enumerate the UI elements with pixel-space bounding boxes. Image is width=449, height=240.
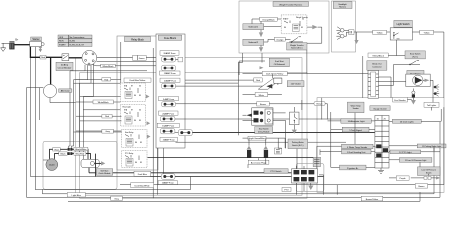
cable connector to breaker (46, 56, 62, 58)
connector red (40, 55, 46, 59)
label 12 pto light (390, 150, 421, 154)
container main harness box (76, 58, 307, 199)
water temp sender box (347, 102, 364, 113)
wire solenoid1 to relay (262, 27, 281, 63)
svg-text:Yellow: Yellow (377, 32, 383, 34)
svg-text:Brown: Brown (418, 185, 425, 188)
svg-text:White: White (259, 94, 265, 97)
wire light switch down to yellow/black (363, 40, 405, 98)
label Black clutch (59, 152, 67, 156)
oil pressure switch symbol (411, 174, 441, 180)
accessory plug 2 (263, 138, 268, 158)
svg-text:86: 86 (134, 95, 136, 97)
svg-text:3 Fuel Sending Unit: 3 Fuel Sending Unit (347, 151, 366, 154)
fuel sender label (393, 97, 408, 102)
low oil pressure switch box (418, 167, 441, 176)
seat switch symbol (408, 60, 420, 65)
svg-text:Fuel Sender: Fuel Sender (394, 99, 406, 102)
starter cable down and to breaker (30, 47, 40, 58)
svg-text:12V Outlet: 12V Outlet (291, 83, 301, 86)
label Red 12v (254, 78, 262, 82)
svg-text:86: 86 (134, 120, 136, 122)
tail light bulb 1 (434, 84, 439, 89)
label 5 tach signal (342, 127, 369, 132)
svg-text:4 Water Temp Sender: 4 Water Temp Sender (347, 146, 367, 149)
svg-text:87A 87: 87A 87 (283, 18, 288, 21)
fuel pump symbol (406, 74, 430, 86)
label Gray (111, 196, 123, 200)
label Orange (264, 37, 291, 42)
12v outlet arrow (266, 84, 272, 89)
fuse block (156, 34, 185, 148)
svg-text:Fuel Shut: Fuel Shut (275, 60, 284, 63)
weight transfer relay (281, 15, 308, 34)
svg-text:15 Parking Brake Light: 15 Parking Brake Light (422, 145, 442, 148)
light switch label (394, 20, 413, 27)
PTO small connector box (313, 157, 320, 166)
svg-text:30: 30 (139, 110, 141, 112)
parking brake switch label (288, 139, 308, 149)
svg-text:START: START (59, 44, 66, 47)
label 4 water temp sender (342, 144, 374, 149)
tail lights label (424, 102, 439, 107)
solenoid 1 (243, 24, 264, 30)
accessory plugs label (248, 160, 269, 164)
starter label (31, 37, 42, 41)
wires ignition down to left bus (70, 64, 94, 159)
weight transfer switch label (287, 43, 307, 50)
PTO assembly container (296, 164, 324, 192)
starter solenoid (30, 41, 45, 51)
svg-text:Solenoid 2: Solenoid 2 (248, 42, 259, 44)
svg-text:B+M1: B+M1 (70, 41, 76, 43)
relay 3 (122, 130, 151, 148)
label Red clutch (53, 148, 61, 152)
svg-text:85: 85 (139, 95, 141, 97)
ground battery (1, 43, 10, 51)
fuel shut off solenoid label (269, 58, 289, 66)
headlight bulb 1 (336, 27, 344, 34)
svg-text:Brown: Brown (317, 103, 324, 106)
container bottom-right harness box (317, 98, 444, 193)
svg-text:11 Low Oil Pressure Light: 11 Low Oil Pressure Light (405, 159, 427, 162)
svg-text:Dark Blue/Yellow: Dark Blue/Yellow (130, 79, 146, 82)
fuse A label (160, 51, 179, 55)
seat switch delay module label (255, 127, 273, 134)
wires ignition to fuse block (97, 58, 157, 62)
12v outlet label (287, 81, 304, 87)
svg-text:Light Blue: Light Blue (72, 194, 82, 197)
cable branch to alternator (50, 57, 52, 84)
svg-text:Head Light: Head Light (123, 106, 132, 109)
svg-text:86: 86 (135, 162, 137, 164)
fuse E label (159, 111, 179, 115)
svg-text:10AMP Fuse: 10AMP Fuse (162, 182, 175, 185)
svg-text:Gauge Cluster: Gauge Cluster (373, 107, 387, 110)
svg-text:Break Out: Break Out (372, 63, 381, 66)
svg-text:Light Green/Blue: Light Green/Blue (249, 137, 265, 140)
svg-text:87: 87 (131, 86, 133, 88)
label 2 ignition b+ (340, 165, 367, 170)
svg-text:Water Temp: Water Temp (351, 104, 361, 107)
svg-text:Low Oil Pressure: Low Oil Pressure (421, 169, 435, 172)
label Yellow/Black (368, 53, 388, 57)
fuse B label (160, 71, 181, 75)
label Dark Blue (89, 171, 292, 176)
wires into delay module (243, 113, 286, 148)
svg-text:Weight Transfer Harness: Weight Transfer Harness (279, 3, 302, 6)
svg-text:20AMP Fuse: 20AMP Fuse (164, 79, 177, 82)
label White/Black (101, 64, 116, 68)
connector pair clutch (69, 146, 74, 148)
fuel sender symbol (407, 89, 416, 105)
label White/Black 2 (76, 100, 121, 104)
tail light bulb 2 (434, 91, 439, 96)
left bus horizontals into relay block (70, 71, 147, 132)
svg-text:30: 30 (139, 86, 141, 88)
wires into break out connector (307, 74, 406, 98)
fuse block header (158, 35, 181, 40)
label 15 parking brake light (417, 144, 446, 148)
40 Amp Circuit Breaker label (56, 62, 73, 70)
headlight harness box (332, 1, 356, 52)
svg-text:Switch (N.O.): Switch (N.O.) (291, 46, 303, 49)
svg-text:Switch (N.O.): Switch (N.O.) (292, 144, 304, 147)
label Blue/Red (74, 152, 86, 156)
label Dark Blue/Yellow (124, 78, 151, 82)
label 3 fuel sending unit (342, 149, 372, 154)
svg-text:Starter: Starter (32, 38, 39, 41)
alternator label (59, 89, 72, 93)
wire breaker to ignition (69, 57, 82, 59)
svg-text:Green: Green (139, 57, 146, 60)
wire fuel shutoff left (238, 61, 265, 135)
wires clutch to soft start module (50, 149, 91, 159)
fuse G inline (175, 130, 375, 136)
svg-text:OFF: OFF (59, 37, 64, 39)
alternator (27, 84, 76, 102)
gauge cluster label (370, 106, 390, 111)
weight transfer harness header (273, 2, 309, 7)
label Red 2 (76, 114, 122, 118)
label Dark Blue/White (120, 183, 444, 188)
soft start module (81, 159, 105, 167)
gauge cluster ground (378, 168, 384, 173)
wires fuel pump tail lights (430, 80, 434, 110)
svg-text:Dark Blue: Dark Blue (138, 173, 148, 176)
label Yellow right (420, 30, 434, 34)
svg-text:Dark Blue/White: Dark Blue/White (135, 184, 151, 187)
svg-text:20AMP Fuse: 20AMP Fuse (162, 112, 175, 115)
svg-text:Accessory Plugs: Accessory Plugs (251, 161, 266, 164)
solenoid 2 (243, 39, 264, 45)
svg-text:2 Ignition B+: 2 Ignition B+ (347, 167, 359, 170)
svg-text:16 Alternator Light: 16 Alternator Light (348, 120, 365, 123)
seat switch delay module body (246, 108, 273, 125)
svg-text:PTO Relay: PTO Relay (125, 153, 133, 155)
svg-text:Parking Brake: Parking Brake (292, 141, 304, 144)
clutch (46, 159, 58, 171)
wire battery to solenoid (15, 44, 30, 46)
svg-text:Circuit Breaker: Circuit Breaker (58, 67, 72, 70)
PTO switch connector grid (292, 166, 318, 195)
headlight bulb 2 (336, 33, 344, 40)
break out connector label (367, 61, 387, 70)
wire clutch harness left (43, 159, 48, 161)
svg-text:Sender: Sender (353, 107, 359, 110)
wires gauge cluster to labels (317, 104, 441, 169)
fuse H label (158, 181, 177, 185)
wire bottom bus lines (27, 42, 441, 201)
headlight ground (354, 32, 358, 44)
svg-text:Dark Green/Yellow: Dark Green/Yellow (266, 73, 284, 76)
label Black/White (74, 147, 88, 151)
label Gray 2 (76, 129, 122, 133)
fuse B (162, 65, 254, 83)
svg-text:15AMP Fuse: 15AMP Fuse (164, 72, 177, 75)
svg-text:86: 86 (135, 142, 137, 144)
soft start clutch module label (96, 169, 113, 175)
connector green (117, 55, 156, 60)
container clutch harness box (43, 141, 117, 189)
svg-text:5 Tach Signal: 5 Tach Signal (349, 130, 362, 132)
svg-text:Delay Module: Delay Module (258, 131, 270, 133)
label 16 alternator light (341, 119, 371, 124)
relay block (117, 36, 158, 170)
svg-text:30: 30 (302, 19, 304, 21)
label Brown bottom (337, 107, 444, 195)
svg-text:(N.O.): (N.O.) (412, 56, 418, 58)
svg-text:White/Black: White/Black (103, 65, 115, 68)
label PTO (282, 188, 291, 192)
svg-text:Seat Switch: Seat Switch (410, 53, 421, 56)
label Dark Green/Yellow (243, 72, 307, 76)
svg-text:40 Amp: 40 Amp (61, 64, 69, 67)
wire fuse block bottom (176, 141, 347, 143)
fuse C label (160, 78, 180, 82)
fuse D label (159, 97, 179, 101)
parking brake switch body (290, 107, 300, 134)
label Red mid (76, 78, 121, 82)
label Brown/Yellow (361, 196, 383, 201)
svg-text:20AMP Fuse: 20AMP Fuse (164, 52, 177, 55)
headlight harness header (333, 2, 352, 9)
label Light Blue (67, 193, 85, 197)
svg-text:Yellow: Yellow (424, 32, 430, 34)
svg-text:85: 85 (140, 162, 142, 164)
PTO switch label (264, 169, 288, 173)
svg-text:85: 85 (140, 142, 142, 144)
svg-text:Tail Lights: Tail Lights (427, 104, 436, 107)
weight transfer relay arrow (312, 25, 317, 29)
wire soft start to bus (89, 154, 96, 177)
svg-text:5 AMP Fuse: 5 AMP Fuse (163, 98, 175, 101)
label Yellow left (373, 30, 387, 34)
wire pto relay feed (148, 157, 314, 159)
gauge cluster grid (375, 116, 389, 169)
headlight connector (344, 30, 354, 36)
PTO ground (308, 183, 313, 190)
svg-text:Switch: Switch (426, 171, 432, 174)
svg-text:PTO Switch: PTO Switch (271, 170, 283, 173)
label Orange/Black (252, 17, 281, 24)
svg-text:26 Dash Lights: 26 Dash Lights (400, 120, 414, 123)
relay 2 (121, 105, 151, 127)
label White (243, 93, 282, 97)
capacitor component (274, 138, 281, 154)
fuse C (162, 83, 264, 89)
svg-text:Orange: Orange (276, 38, 284, 41)
fuse H inline low (150, 174, 324, 180)
fuse G label (160, 137, 178, 141)
svg-text:B+M1+B+S+ST: B+M1+B+S+ST (70, 45, 85, 47)
svg-text:15AMP Fuse: 15AMP Fuse (162, 125, 175, 128)
wire yellow bus top (354, 32, 444, 98)
svg-text:20AMP Fuse: 20AMP Fuse (163, 139, 176, 142)
svg-text:Orange/Black: Orange/Black (262, 18, 276, 21)
svg-text:Solenoid 1: Solenoid 1 (248, 27, 259, 29)
label 11 low oil pressure light (399, 158, 432, 163)
relay block header (125, 37, 151, 42)
svg-text:RUN: RUN (59, 41, 64, 43)
svg-text:Purple: Purple (400, 177, 407, 180)
svg-text:12 PTO Light: 12 PTO Light (399, 151, 412, 154)
svg-text:Black/White: Black/White (75, 148, 87, 151)
fuse A (162, 57, 183, 63)
svg-text:Off Solenoid: Off Solenoid (274, 64, 285, 66)
wires right area verticals (243, 50, 322, 168)
wire white/black from ignition (93, 65, 157, 66)
svg-text:87: 87 (131, 110, 133, 112)
svg-text:Relay Block: Relay Block (131, 38, 144, 41)
fuse E (160, 116, 342, 121)
svg-text:Harness: Harness (339, 5, 346, 8)
svg-text:No Connections: No Connections (70, 36, 85, 39)
svg-text:Clutch Module: Clutch Module (98, 172, 110, 175)
break out connector body (368, 70, 379, 98)
relay 1 (121, 83, 150, 102)
svg-text:White/Black: White/Black (98, 101, 110, 104)
fuse D (162, 102, 257, 107)
12v outlet symbol (258, 74, 282, 89)
svg-text:Clutch: Clutch (49, 164, 56, 167)
accessory plug 1 (247, 138, 252, 158)
svg-text:Yellow/Black: Yellow/Black (372, 55, 385, 57)
circuit breaker symbol (62, 54, 69, 61)
svg-text:Seat Switch: Seat Switch (259, 128, 269, 131)
fuse F label (157, 123, 179, 127)
battery (9, 41, 14, 49)
seat switch label (405, 51, 425, 59)
weight transfer harness box (239, 1, 329, 53)
light switch body (390, 28, 412, 40)
svg-text:Blue/Red: Blue/Red (76, 154, 85, 156)
label Brown right (314, 102, 325, 106)
relay 4 (122, 151, 148, 168)
label Brown (257, 102, 314, 106)
ground arrow solenoid1 (259, 30, 263, 38)
svg-text:Connector: Connector (372, 66, 382, 69)
svg-text:Brown/Yellow: Brown/Yellow (366, 198, 379, 201)
svg-text:85: 85 (139, 120, 141, 122)
svg-text:PTO: PTO (284, 190, 289, 192)
svg-text:Start Relay: Start Relay (125, 131, 134, 134)
ignition legend table (58, 35, 92, 47)
svg-text:Brown: Brown (260, 103, 267, 106)
svg-text:Light Switch: Light Switch (397, 23, 411, 26)
svg-text:Alternator: Alternator (61, 90, 70, 93)
svg-text:85: 85 (301, 27, 303, 29)
svg-text:86: 86 (284, 27, 286, 29)
ignition switch (82, 50, 97, 65)
fuel pump label (407, 70, 424, 75)
label Light Green/Blue (243, 136, 286, 140)
fuse F (160, 129, 175, 134)
label 26 dash lights (392, 119, 421, 123)
weight transfer switch symbol (289, 37, 303, 43)
svg-text:Fuse Block: Fuse Block (164, 37, 177, 40)
ground arrow solenoid2 (259, 45, 263, 52)
label Purple (389, 176, 409, 180)
